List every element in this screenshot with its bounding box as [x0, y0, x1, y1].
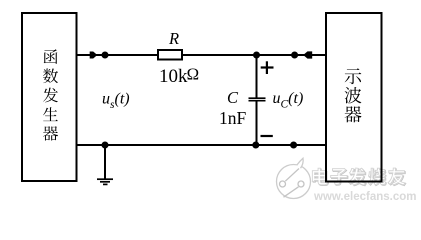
svg-text:10k: 10k	[159, 66, 188, 87]
watermark logo (elecfans)	[277, 158, 311, 198]
junction dot (ground tap bottom)	[102, 142, 109, 149]
function generator box	[22, 13, 77, 181]
junction dot (scope top tap)	[291, 52, 298, 59]
svg-text:Ω: Ω	[187, 64, 199, 83]
arrow into node (source side)	[90, 52, 98, 59]
junction dot (capacitor top)	[253, 52, 260, 59]
svg-text:www.elecfans.com: www.elecfans.com	[313, 191, 416, 203]
arrow into node (scope side, pointing left)	[303, 51, 312, 58]
wire: top left segment (generator to resistor)	[76, 54, 158, 56]
capacitor C branch wire (bottom)	[256, 101, 258, 145]
wire: bottom segment (generator to oscilloscope)	[76, 144, 327, 146]
svg-text:C: C	[227, 88, 239, 107]
capacitor C plates	[249, 97, 266, 99]
polarity minus sign	[261, 135, 273, 137]
oscilloscope label 示波器	[344, 68, 361, 122]
wire: top right segment (resistor to oscilloscope)	[182, 54, 327, 56]
capacitor C branch wire (top)	[256, 55, 258, 98]
ground bars	[97, 179, 113, 184]
svg-text:R: R	[168, 29, 179, 48]
junction dot (capacitor bottom)	[252, 142, 259, 149]
junction dot node A (top, ground tap)	[102, 52, 109, 59]
ground stem	[104, 145, 106, 179]
watermark text 电子发烧友	[312, 168, 405, 186]
resistor R	[158, 50, 182, 60]
polarity plus sign	[261, 61, 274, 74]
function generator label 函数发生器	[43, 49, 58, 140]
svg-text:1nF: 1nF	[219, 108, 247, 128]
junction dot (scope bottom tap)	[290, 142, 297, 149]
oscilloscope box	[326, 13, 382, 182]
